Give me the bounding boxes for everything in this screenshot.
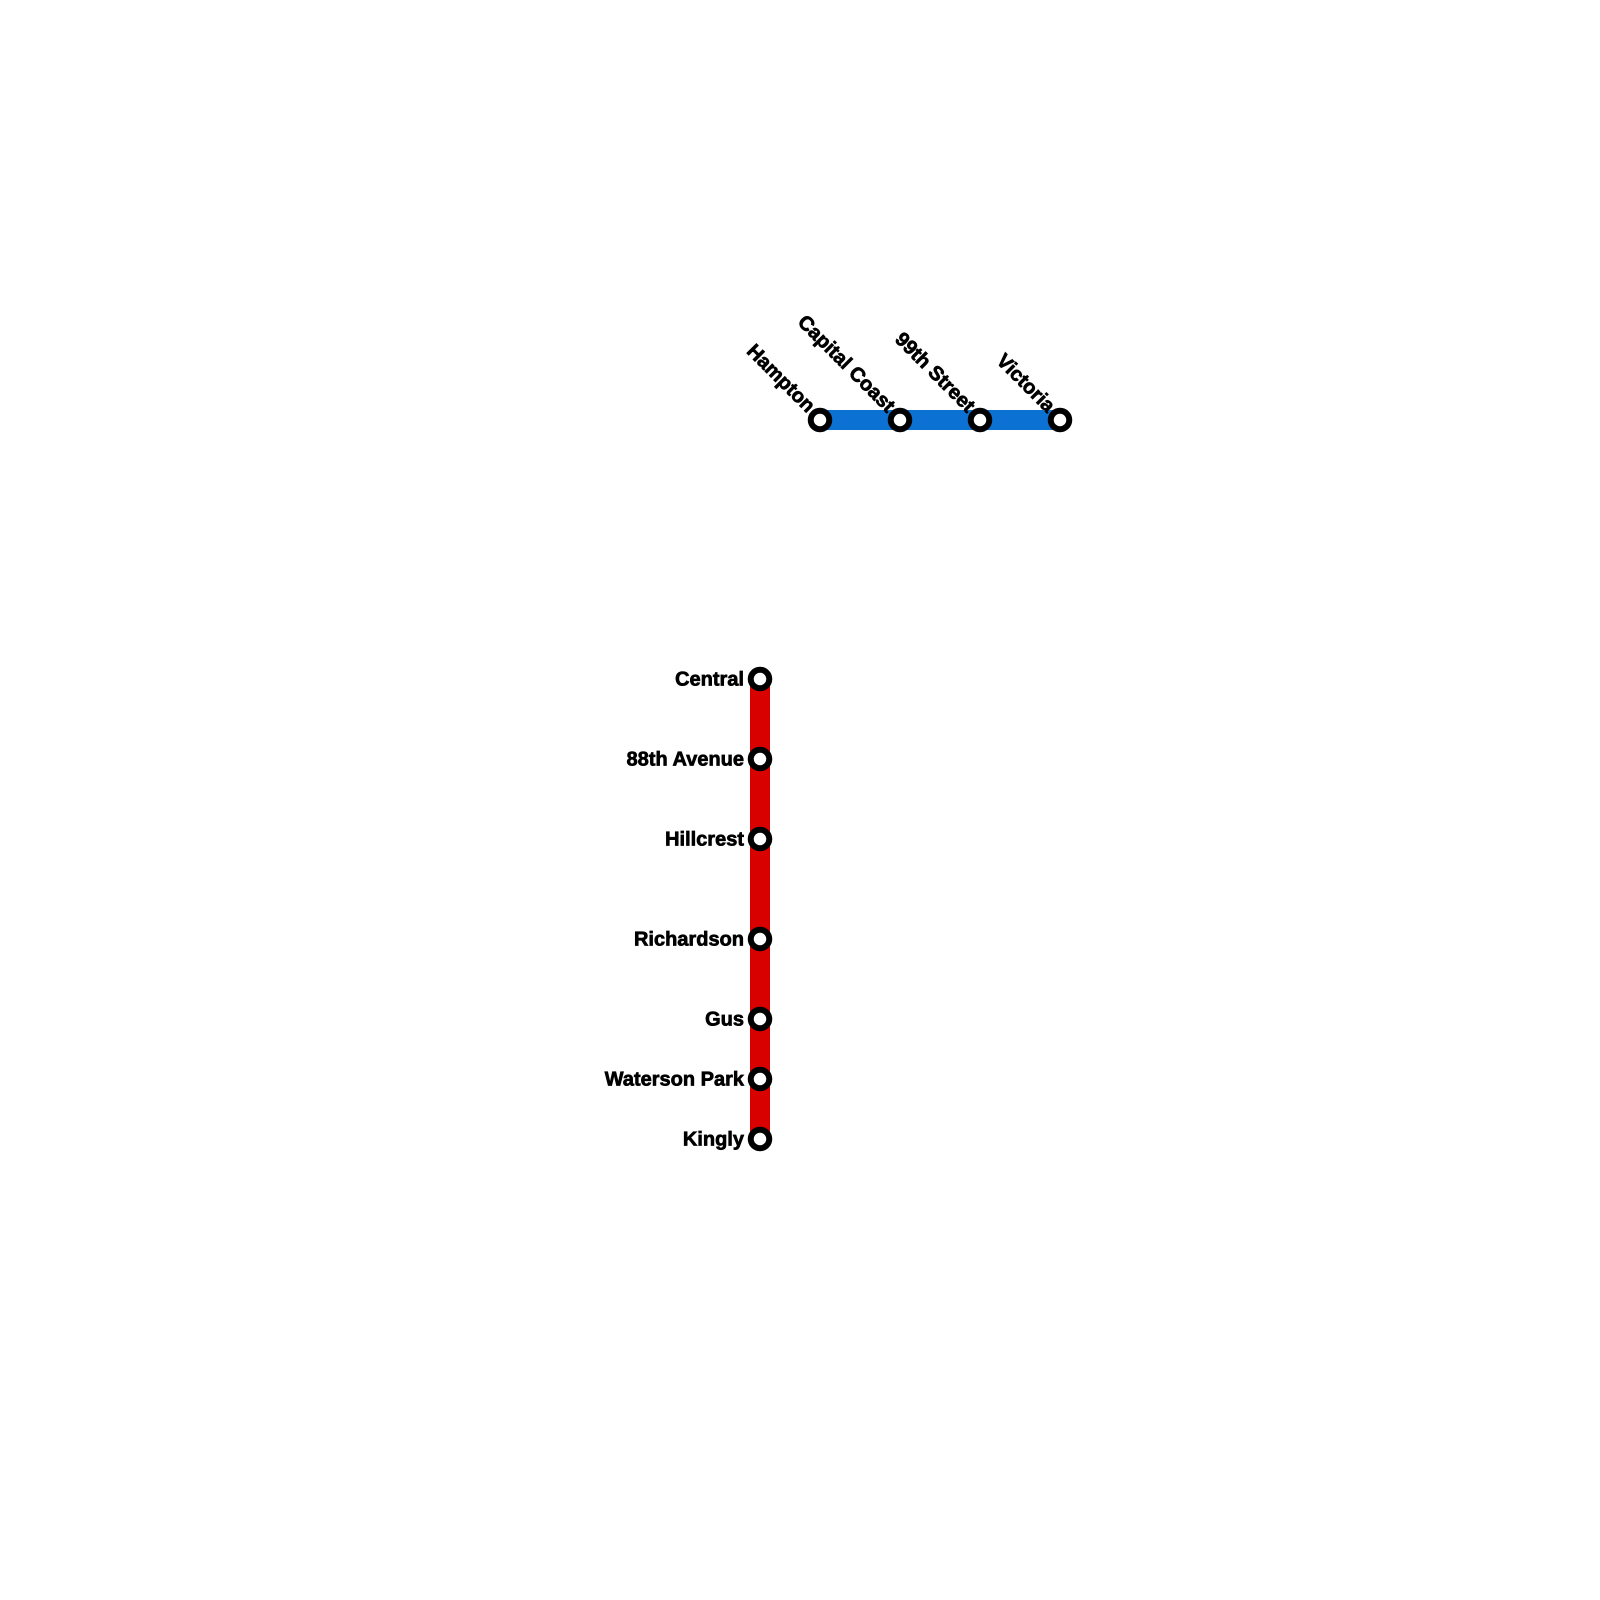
station 88th Avenue [627, 750, 769, 769]
blue line [820, 410, 1060, 430]
station Capital Coast [794, 313, 909, 429]
station Kingly [684, 1130, 769, 1150]
station Hampton [744, 343, 830, 429]
station Central [676, 670, 769, 689]
station Gus [706, 1010, 769, 1029]
station 99th Street [894, 331, 989, 430]
station Victoria [995, 352, 1069, 430]
red line [750, 679, 770, 1139]
station Richardson [635, 930, 769, 949]
station Waterson Park [605, 1070, 770, 1089]
station Hillcrest [666, 830, 769, 849]
